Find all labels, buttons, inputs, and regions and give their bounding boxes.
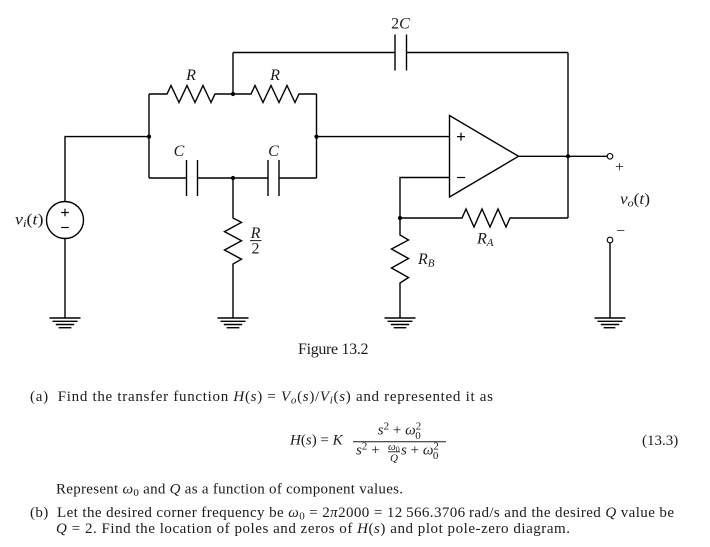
svg-text:R: R	[250, 225, 261, 242]
svg-text:Q: Q	[390, 453, 398, 465]
node dot B (to op-amp)	[314, 135, 318, 139]
svg-text:Figure 13.2: Figure 13.2	[298, 341, 369, 358]
svg-text:s + ω20: s + ω20	[401, 441, 439, 463]
wire: node B to op-amp plus input	[317, 136, 450, 138]
svg-text:(13.3): (13.3)	[642, 433, 678, 449]
terminal plus (open circle)	[607, 154, 613, 160]
terminal minus (open circle)	[607, 237, 613, 243]
wire: source bottom to ground	[64, 239, 66, 319]
svg-text:(a) Find the transfer functio: (a) Find the transfer function H(s) = Vo…	[30, 389, 493, 407]
svg-text:+: +	[615, 159, 624, 176]
wire: right rail down to output node	[567, 53, 569, 157]
equation H(s)	[289, 421, 446, 465]
wire: top rail right segment	[407, 52, 569, 54]
capacitor 2C	[395, 35, 407, 71]
svg-text:C: C	[268, 143, 279, 160]
resistor RB	[392, 218, 409, 318]
resistor R1	[149, 86, 233, 103]
svg-text:C: C	[174, 143, 185, 160]
svg-text:R: R	[269, 67, 280, 84]
svg-text:Represent ω0 and Q as a functi: Represent ω0 and Q as a function of comp…	[56, 482, 403, 500]
svg-text:RB: RB	[417, 251, 435, 270]
resistor R2	[233, 86, 317, 103]
svg-text:vi(t): vi(t)	[15, 212, 44, 231]
ground (input)	[50, 318, 81, 328]
capacitor C1	[149, 160, 233, 196]
wire: top rail left segment	[233, 52, 395, 54]
svg-text:−: −	[616, 223, 625, 240]
node dot output	[566, 154, 570, 158]
node dot R1-R2-2C	[231, 92, 235, 96]
svg-text:R: R	[185, 67, 196, 84]
capacitor C2	[233, 160, 317, 196]
svg-text:2C: 2C	[391, 16, 410, 33]
wire: left vertical of twin-T	[148, 94, 150, 178]
svg-text:RA: RA	[476, 231, 494, 250]
ground (output)	[595, 318, 626, 328]
resistor R/2	[225, 178, 242, 318]
wire: minus terminal to ground	[609, 243, 611, 318]
label R/2	[250, 225, 262, 258]
wire: node R1R2 up to top rail	[232, 53, 234, 95]
svg-text:2: 2	[252, 241, 260, 258]
wire: right vertical of twin-T	[316, 94, 318, 178]
node dot C (RA-RB)	[398, 216, 402, 220]
svg-text:s2 +: s2 +	[356, 441, 380, 459]
svg-text:vo(t): vo(t)	[620, 191, 650, 210]
node dot C1-C2-R/2	[231, 176, 235, 180]
node dot A (input)	[147, 135, 151, 139]
wire: output node down to RA	[567, 156, 569, 218]
svg-text:H(s) = K: H(s) = K	[289, 433, 344, 449]
resistor RA	[400, 209, 568, 227]
ground (R/2)	[218, 318, 249, 328]
wire: op-amp minus input to node C	[400, 178, 450, 219]
svg-text:(b) Let the desired corner fr: (b) Let the desired corner frequency be …	[30, 505, 674, 523]
svg-text:Q = 2. Find the location of po: Q = 2. Find the location of poles and ze…	[56, 521, 570, 537]
wire input: source top to node A	[65, 137, 149, 202]
ground (RB)	[385, 318, 416, 328]
svg-text:s2 + ω20: s2 + ω20	[378, 421, 421, 443]
voltage source vi(t)	[47, 202, 84, 239]
op-amp U1	[450, 116, 519, 198]
wire: op-amp output	[519, 155, 608, 157]
